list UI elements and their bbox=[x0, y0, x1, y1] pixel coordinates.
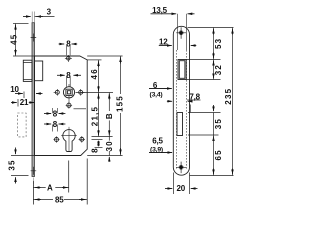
dim 35 (top arrow outside) bbox=[213, 105, 215, 111]
dim 30 (outside arrows, shares line with B) bbox=[108, 137, 110, 156]
dim 65 bbox=[213, 169, 215, 175]
right extension lines bbox=[188, 27, 234, 29]
dim 20 bbox=[174, 173, 190, 195]
label 155 bbox=[116, 94, 123, 113]
dim 53 bbox=[213, 28, 215, 60]
dim 85 bbox=[34, 199, 88, 201]
label A bbox=[46, 184, 56, 192]
faceplate screw cross top bbox=[31, 34, 37, 42]
svg-text:(3,4): (3,4) bbox=[150, 91, 163, 98]
dim 8 row1 bbox=[44, 113, 51, 115]
cylinder screw extension line bbox=[92, 139, 103, 141]
dim 8 cylinder screw bbox=[98, 141, 100, 145]
follower square 8mm bbox=[66, 89, 72, 95]
dim 21,5 bbox=[98, 93, 100, 137]
top screw: crosshair + diamond bbox=[176, 27, 186, 39]
svg-text:32: 32 bbox=[214, 64, 223, 75]
chamfer extension line for dim 46 bbox=[87, 59, 101, 61]
svg-text:53: 53 bbox=[214, 38, 223, 49]
dim 13,5 bbox=[151, 13, 177, 15]
svg-text:6,5: 6,5 bbox=[152, 136, 163, 145]
dim 35 bottom left bbox=[15, 148, 17, 155]
latch bolt head bbox=[23, 60, 32, 81]
case bottom extension left and right bbox=[11, 155, 123, 157]
bottom screw: crosshair + diamond bbox=[176, 162, 186, 174]
svg-text:235: 235 bbox=[224, 88, 233, 105]
label 30 bbox=[106, 141, 114, 151]
svg-text:45: 45 bbox=[10, 34, 19, 45]
svg-text:12: 12 bbox=[159, 37, 168, 46]
dim B bbox=[108, 93, 110, 137]
faceplate outline stadium bbox=[173, 26, 189, 175]
label B bbox=[106, 111, 113, 120]
latch bolt body bbox=[35, 61, 43, 81]
dim 12 bbox=[159, 45, 172, 47]
deadbolt cutout bbox=[177, 113, 183, 136]
svg-text:B: B bbox=[105, 112, 114, 119]
cylinder centre extension line bbox=[92, 136, 113, 138]
dim 235 bbox=[232, 28, 234, 176]
extension lines for A and 85 bbox=[33, 159, 87, 205]
follower hub U-shaped crosshair bbox=[54, 84, 85, 92]
latch face inner bbox=[179, 61, 185, 79]
top fixing screw hole bbox=[67, 57, 71, 61]
small vertical ref line bbox=[189, 105, 191, 113]
label 85 bbox=[53, 195, 64, 203]
dim 8 top screw hole bbox=[59, 43, 65, 45]
dim 8 follower square bbox=[57, 74, 65, 76]
svg-text:10: 10 bbox=[10, 85, 19, 94]
faceplate edge strip (left view) bbox=[32, 23, 35, 177]
hidden case lines dashed bbox=[177, 50, 187, 170]
svg-text:(3,9): (3,9) bbox=[150, 146, 163, 153]
svg-text:8: 8 bbox=[66, 71, 71, 80]
leader 6,5 (3,9) bbox=[149, 152, 172, 154]
svg-text:46: 46 bbox=[90, 68, 99, 79]
svg-text:20: 20 bbox=[177, 184, 186, 193]
dim 32 bbox=[213, 60, 215, 80]
dashed deadbolt thrown outline bbox=[18, 113, 27, 137]
svg-text:85: 85 bbox=[55, 195, 64, 204]
handle screw hole left bbox=[55, 90, 59, 94]
dim 10 latch projection bbox=[15, 93, 23, 95]
svg-text:155: 155 bbox=[116, 95, 125, 112]
svg-text:65: 65 bbox=[214, 149, 223, 160]
svg-text:13,5: 13,5 bbox=[152, 6, 168, 15]
dim 8 row2 bbox=[44, 123, 51, 125]
cylinder screw hole right bbox=[80, 137, 84, 141]
svg-text:8: 8 bbox=[53, 109, 58, 118]
dim 21 bbox=[17, 99, 19, 107]
extension lines for 13,5 bbox=[178, 14, 187, 50]
svg-text:35: 35 bbox=[8, 159, 17, 170]
svg-text:35: 35 bbox=[214, 118, 223, 129]
faceplate centerline below bbox=[32, 178, 34, 187]
svg-text:30: 30 bbox=[105, 140, 114, 151]
case top edge left extension bbox=[13, 55, 35, 57]
svg-text:7,8: 7,8 bbox=[189, 92, 200, 101]
faceplate screw cross bottom bbox=[31, 167, 37, 175]
extension line below for dim 8 cyl bbox=[95, 147, 103, 149]
dim 46 bbox=[98, 60, 100, 93]
svg-text:21: 21 bbox=[20, 98, 29, 107]
link line follower to lower hole bbox=[68, 95, 70, 102]
follower centreline extension right bbox=[76, 92, 114, 94]
dim 45 bbox=[13, 23, 29, 25]
euro profile cylinder hole bbox=[63, 130, 75, 152]
svg-text:21,5: 21,5 bbox=[90, 106, 99, 126]
cylinder crosshair bbox=[61, 127, 77, 151]
latch cutout bbox=[178, 60, 186, 80]
cylinder screw hole left bbox=[55, 138, 59, 142]
svg-text:8: 8 bbox=[53, 120, 58, 129]
dim 3 faceplate thickness bbox=[23, 16, 31, 18]
arrows 7,8 bbox=[167, 100, 172, 102]
dim 155 bbox=[87, 55, 122, 57]
svg-text:8: 8 bbox=[66, 40, 71, 49]
dim A bbox=[34, 187, 70, 189]
handle screw hole right bbox=[79, 90, 83, 94]
faceplate strip extension lines above bbox=[32, 12, 34, 23]
follower inner square bbox=[67, 91, 70, 94]
svg-text:A: A bbox=[47, 184, 53, 193]
lock case outline bbox=[35, 56, 88, 156]
svg-text:3: 3 bbox=[47, 7, 52, 16]
follower outer circle bbox=[63, 87, 74, 98]
svg-text:8: 8 bbox=[91, 147, 100, 153]
leader 6 (3,4) bbox=[149, 88, 172, 90]
small hole below follower bbox=[67, 103, 71, 107]
short reference line right of lower hole bbox=[74, 108, 87, 110]
leader 7,8 underline bbox=[187, 99, 201, 101]
